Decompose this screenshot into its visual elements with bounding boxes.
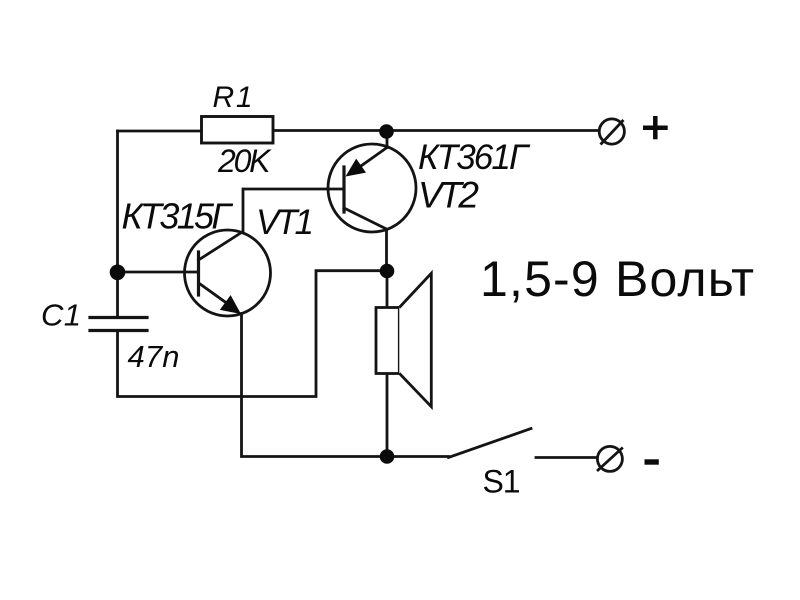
- svg-text:1,5-9 Вольт: 1,5-9 Вольт: [480, 251, 754, 307]
- svg-text:VT1: VT1: [256, 203, 314, 242]
- svg-text:20K: 20K: [217, 143, 272, 179]
- svg-text:47n: 47n: [128, 339, 180, 374]
- svg-text:КТ315Г: КТ315Г: [122, 196, 234, 237]
- svg-text:C1: C1: [41, 298, 81, 333]
- svg-text:VT2: VT2: [418, 175, 479, 216]
- svg-text:R1: R1: [213, 81, 253, 114]
- svg-text:КТ361Г: КТ361Г: [418, 138, 531, 177]
- svg-text:S1: S1: [483, 464, 521, 500]
